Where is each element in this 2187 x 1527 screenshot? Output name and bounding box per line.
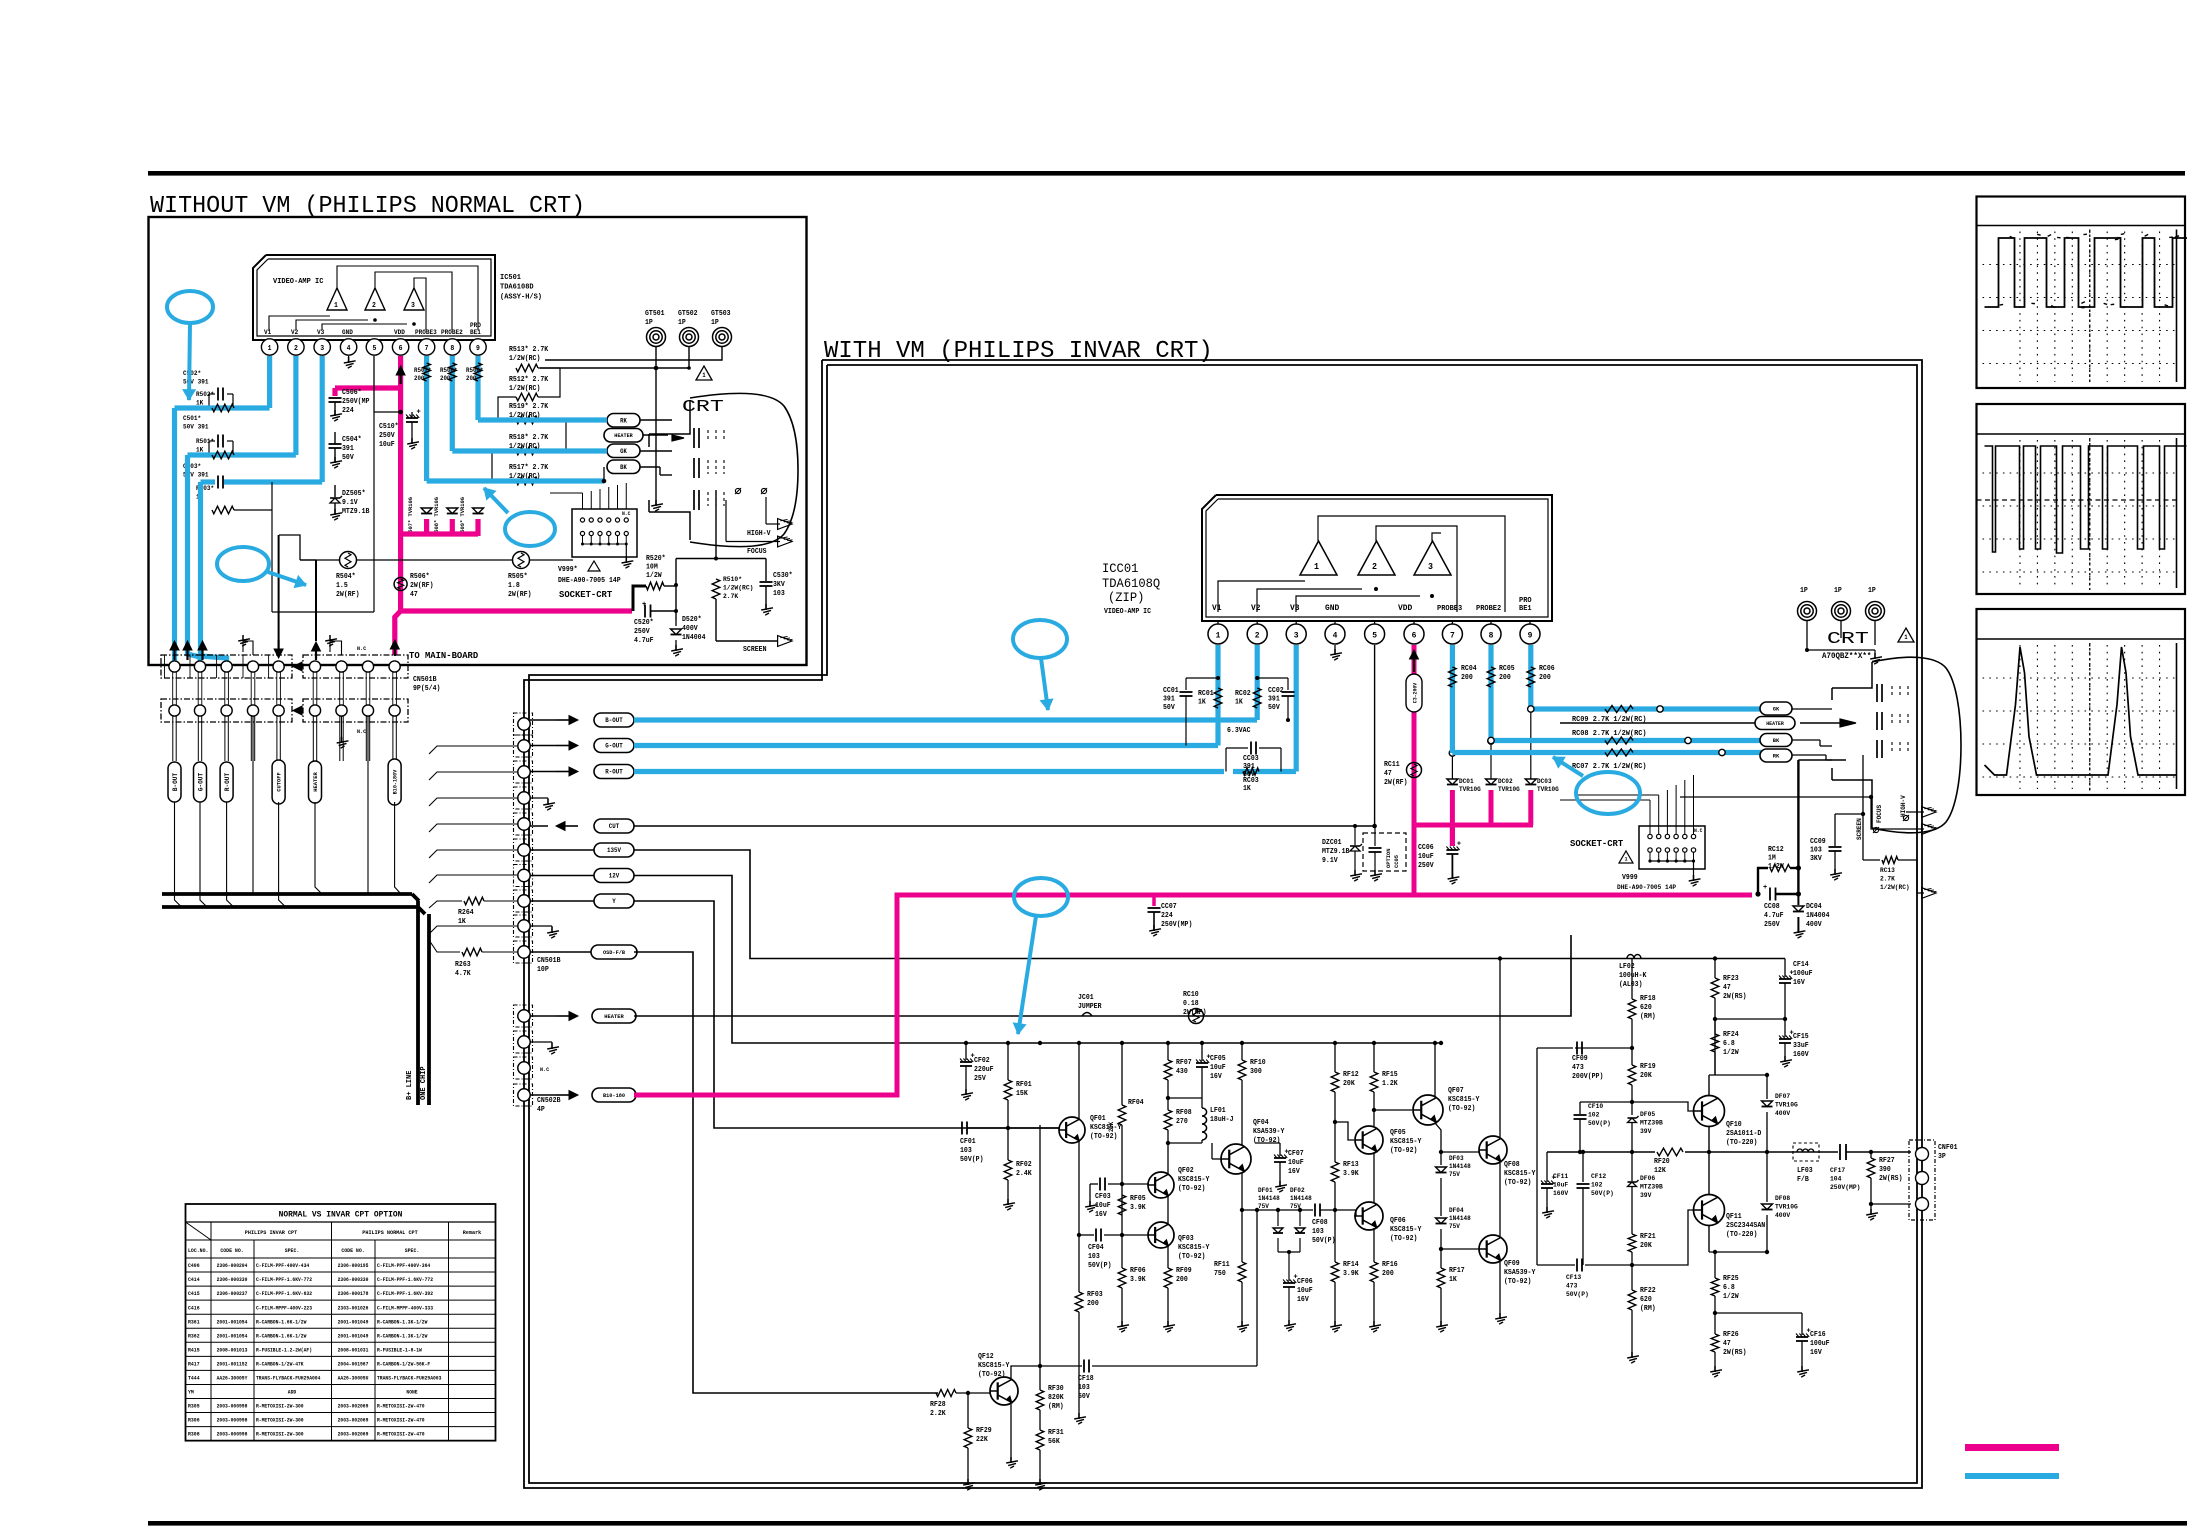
wire cyan ICC01 pin2 down [1255,645,1260,720]
svg-text:10P: 10P [537,966,549,974]
svg-text:4.7K: 4.7K [455,970,471,978]
svg-text:F/B: F/B [1797,1176,1810,1184]
svg-text:MTZ9.1B: MTZ9.1B [1322,848,1350,856]
wire CRT focus lines [725,500,727,542]
svg-text:FOCUS: FOCUS [1876,805,1883,823]
svg-text:N.C: N.C [540,1066,550,1073]
ground for CF02 [965,1089,967,1095]
svg-text:1P: 1P [711,319,719,327]
capacitor CF15 [1784,1019,1786,1037]
svg-text:CC02: CC02 [1268,687,1284,695]
svg-text:GK: GK [620,448,627,455]
svg-text:22K: 22K [976,1436,989,1444]
svg-text:C506*: C506* [342,389,362,397]
capacitor CF06 [1283,1282,1295,1284]
pill RK (with) [1760,749,1792,762]
wire cyan IC501 pin8 to GK [450,356,455,451]
resistor RC05 [1488,645,1493,741]
svg-text:R512* 2.7K: R512* 2.7K [509,376,549,384]
wires socket risers (without) [582,493,584,509]
svg-text:G-OUT: G-OUT [197,773,204,791]
svg-text:2.4K: 2.4K [1016,1170,1032,1178]
oscillogram box 3 [1977,609,2186,795]
CRT funnel (without) [690,393,798,546]
transistor QF05 [1355,1126,1383,1154]
svg-text:3.9K: 3.9K [1130,1204,1146,1212]
table header rows [211,1222,496,1240]
SCREEN arrow (without) [778,636,792,647]
arrow up on B10-180 (without) [394,648,396,656]
SOCKET-CRT connector (with) [1639,826,1705,869]
svg-text:AA26-30005U: AA26-30005U [338,1376,369,1382]
wire QF09 emitter [1499,1262,1501,1318]
wire QF01 collector [1078,1043,1080,1119]
arrow + pill B10-180 [530,1094,556,1096]
svg-text:750: 750 [1214,1270,1226,1278]
svg-text:RF30: RF30 [1048,1385,1064,1393]
wire cyan row V2 [188,452,296,457]
svg-text:R518* 2.7K: R518* 2.7K [509,434,549,442]
svg-text:2003-002069: 2003-002069 [338,1404,369,1410]
transistor QF02 [1148,1172,1174,1198]
pill GK (with) [1760,702,1792,715]
svg-text:HEATER: HEATER [1766,721,1784,727]
svg-text:8: 8 [450,345,454,353]
svg-text:1/2W(RC): 1/2W(RC) [1880,884,1910,891]
svg-text:R520*: R520* [646,555,666,563]
ground for CC07 [1153,925,1155,931]
wire 135V line [634,850,1785,959]
op-amp triangle 3 of IC501 [404,288,424,310]
svg-text:HIGH-V: HIGH-V [747,530,771,538]
svg-text:103: 103 [960,1147,972,1155]
svg-text:1K: 1K [1235,699,1244,707]
svg-text:KSC815-Y: KSC815-Y [1390,1226,1422,1234]
transistor QF03 [1148,1222,1174,1248]
svg-text:50V: 50V [1163,704,1176,712]
svg-text:PROBE3: PROBE3 [415,329,437,336]
wire cyan IC501 pin9 to RK [475,356,480,420]
svg-text:430: 430 [1176,1068,1188,1076]
svg-text:QF08: QF08 [1504,1161,1520,1169]
svg-text:10uF: 10uF [1095,1202,1111,1210]
svg-text:20K: 20K [1343,1080,1356,1088]
svg-text:C-FILM-PPF-1.6KV-392: C-FILM-PPF-1.6KV-392 [377,1291,433,1297]
svg-text:2306-000237: 2306-000237 [217,1291,248,1297]
svg-text:D509* TVR10G: D509* TVR10G [459,497,466,536]
svg-text:3: 3 [411,302,415,310]
fusible resistor R504 [340,552,357,569]
svg-text:CF12: CF12 [1591,1173,1606,1181]
wire magenta diode bus (without) [401,531,478,536]
svg-text:C504*: C504* [342,436,362,444]
svg-text:OSD-F/B: OSD-F/B [603,949,626,956]
svg-text:RF16: RF16 [1382,1261,1398,1269]
table column lines [210,1222,212,1441]
wire heater line (crt) [1560,722,1755,724]
wire cyan B-OUT long [634,717,1257,722]
svg-text:103: 103 [1088,1253,1100,1261]
svg-text:224: 224 [1161,912,1173,920]
svg-text:BE1: BE1 [1519,605,1532,613]
svg-text:CC08: CC08 [1764,903,1780,911]
svg-text:SPEC.: SPEC. [405,1248,420,1254]
wires connector row2 to pills [172,716,174,761]
callout ellipse C (without, diodes) [505,512,555,546]
svg-text:CC06: CC06 [1418,844,1434,852]
ground for DZC01 [1354,870,1356,876]
svg-text:47: 47 [1384,770,1392,778]
wire QF10 collector [1708,1075,1710,1095]
resistor RF03 [1075,1292,1083,1312]
resistor RF25 [1714,1252,1716,1278]
svg-text:V1: V1 [1212,603,1222,613]
wire cyan IC501 pin2 down [293,356,298,455]
svg-text:RF01: RF01 [1016,1081,1032,1089]
wire 12V line [634,876,1441,1044]
wire GT501 down [655,346,657,505]
svg-text:1.2K: 1.2K [1382,1080,1398,1088]
wire DF row [1242,1209,1313,1211]
svg-text:R-FUSIBLE-1.2-2W(AF): R-FUSIBLE-1.2-2W(AF) [256,1347,312,1353]
svg-text:C530*: C530* [773,572,793,580]
svg-text:(TO-92): (TO-92) [1090,1133,1117,1141]
svg-text:4P: 4P [537,1106,545,1114]
svg-text:9.1V: 9.1V [342,499,358,507]
svg-text:1: 1 [702,372,706,379]
diode DF04 [1436,1218,1447,1224]
capacitor CF16 [1715,1312,1802,1314]
svg-text:3: 3 [1428,562,1433,572]
ground stubs above row1 [243,641,253,655]
resistor R264 [429,901,462,908]
svg-text:RF03: RF03 [1087,1291,1103,1299]
svg-text:CN501B: CN501B [537,957,561,965]
wire QF11 base link [1632,1210,1694,1265]
connector CN501A row 2 [161,699,292,722]
wires pills to CRT neck [640,419,672,421]
svg-text:CC01: CC01 [1163,687,1179,695]
svg-text:(TO-92): (TO-92) [978,1371,1005,1379]
svg-text:20K: 20K [1640,1072,1653,1080]
ground for CC09 [1834,869,1836,875]
svg-text:1/2W: 1/2W [1723,1049,1739,1057]
svg-text:TDA6108D: TDA6108D [500,284,534,292]
svg-text:RC07 2.7K 1/2W(RC): RC07 2.7K 1/2W(RC) [1572,763,1647,771]
capacitor CC08 [1769,888,1771,901]
svg-text:1: 1 [1904,634,1908,641]
svg-text:PRO: PRO [1519,597,1532,605]
svg-text:16V: 16V [1793,979,1806,987]
wire heavy crt feed column [1797,760,1799,894]
resistor RF01 [1007,1043,1009,1080]
svg-text:9.1V: 9.1V [1322,857,1338,865]
ground for CN501B pin4 [530,797,548,799]
resistor RF19 [1628,1065,1636,1085]
svg-text:QF02: QF02 [1178,1167,1194,1175]
svg-text:6: 6 [399,345,403,353]
svg-text:C3-200V: C3-200V [1413,682,1419,703]
svg-text:ONE CHIP: ONE CHIP [420,1066,428,1100]
svg-text:200: 200 [440,375,451,382]
svg-text:102: 102 [1588,1112,1599,1120]
WITHOUT VM section box [149,217,807,665]
svg-text:RC01: RC01 [1198,690,1214,698]
svg-text:1N4148: 1N4148 [1258,1195,1280,1202]
diode DF07 [1766,1075,1768,1099]
vertical pill B10-180V [388,759,401,805]
svg-text:GT502: GT502 [678,310,698,318]
wire cyan ICC01 pin3 down [1294,645,1299,772]
ground for RF06 [1121,1321,1123,1327]
wire stubs bus to CN501B pins [429,746,517,754]
capacitor CF01 [961,1122,963,1135]
svg-text:C502*: C502* [183,370,201,377]
wires pills down to B+ bus [175,802,182,907]
wire ICC01 pin5 down [1374,645,1376,826]
capacitor CF14 [1784,959,1786,978]
resistor RF16 [1373,1228,1375,1262]
svg-text:R510*: R510* [723,576,742,584]
svg-text:MTZ39B: MTZ39B [1640,1120,1663,1128]
svg-text:RF22: RF22 [1640,1287,1656,1295]
wire cyan IC501 pin1 down [267,356,272,408]
svg-text:2: 2 [294,345,298,353]
svg-text:IC501: IC501 [500,274,521,282]
svg-text:C-FILM-MPPF-400V-333: C-FILM-MPPF-400V-333 [377,1305,433,1311]
svg-text:1P: 1P [1868,587,1876,595]
svg-text:SCREEN: SCREEN [743,646,767,654]
wire HEATER feed with up arrow [315,560,317,641]
svg-text:1: 1 [1216,631,1221,641]
svg-text:CODE NO.: CODE NO. [220,1248,243,1254]
svg-text:391: 391 [1268,696,1280,704]
svg-text:7: 7 [1450,631,1455,641]
wire QF10 emitter to rail [1708,1127,1710,1152]
svg-text:2001-001054: 2001-001054 [217,1319,248,1325]
diode DF03 [1436,1167,1447,1173]
svg-text:R-CARBON-1.3K-1/2W: R-CARBON-1.3K-1/2W [377,1319,427,1325]
svg-text:+: + [1457,841,1461,849]
pill 12V [530,875,594,877]
capacitor CF09 [1575,1047,1632,1049]
svg-text:JC01: JC01 [1078,994,1094,1002]
wire focus line [1680,796,1871,798]
table data rows [186,1271,496,1273]
svg-text:V2: V2 [1251,603,1261,613]
svg-text:2003-002069: 2003-002069 [338,1432,369,1438]
resistor RF31 [1039,1410,1041,1430]
svg-text:102: 102 [1591,1182,1602,1190]
wire cyan BK line [1491,738,1762,743]
svg-text:D508* TVR10G: D508* TVR10G [433,497,440,536]
resistor R263 [429,940,460,952]
svg-text:1P: 1P [1834,587,1842,595]
callout ellipse B (without, mid-left) [217,547,269,581]
ground for RF02 [1007,1199,1009,1205]
svg-text:R-CARBON-1.3K-1/2W: R-CARBON-1.3K-1/2W [377,1333,427,1339]
svg-text:N.C: N.C [1694,828,1702,834]
svg-text:CUT: CUT [609,823,620,830]
wire QF05-QF06 column [1373,1152,1375,1202]
ground for RF26 [1714,1366,1716,1372]
svg-text:200: 200 [1176,1276,1188,1284]
pill Y [530,900,594,902]
svg-text:(ZIP): (ZIP) [1108,590,1144,605]
pill OSD-F/B [530,951,594,953]
svg-text:CF07: CF07 [1288,1150,1304,1158]
svg-text:R-CARBON-1/2W-47K: R-CARBON-1/2W-47K [256,1361,304,1367]
op-amp triangle 2 of ICC01 [1358,541,1395,575]
vertical pill G-OUT [194,762,207,802]
svg-text:200: 200 [1499,674,1511,682]
svg-text:(TO-92): (TO-92) [1504,1278,1531,1286]
wire bias row [300,559,340,561]
svg-text:7: 7 [425,345,429,353]
svg-text:1N4148: 1N4148 [1449,1215,1471,1222]
resistor RF12 [1334,1043,1336,1072]
B+ bus thick lines [162,892,412,896]
svg-text:TDA6108Q: TDA6108Q [1102,576,1160,591]
WITH VM section box outer border [524,360,1922,1488]
resistor RF11 [1238,1262,1246,1282]
svg-text:1/2W(RC): 1/2W(RC) [509,355,540,363]
svg-text:TVR10G: TVR10G [1537,786,1559,793]
wire QF11 collector [1708,1226,1710,1252]
vertical pill HEATER [309,761,322,803]
svg-text:DHE-A90-7005 14P: DHE-A90-7005 14P [1617,884,1676,891]
svg-text:R-OUT: R-OUT [224,773,231,791]
pill RK (without) [607,414,640,428]
svg-text:12V: 12V [609,873,620,880]
capacitor CF07 [1279,1143,1281,1156]
svg-text:250V: 250V [1418,862,1434,870]
ground for CC05 [1374,870,1376,876]
arrow up x3 on video lines [173,649,175,660]
waveform 3 trace [1985,647,2177,775]
resistor RF22 [1628,1290,1636,1310]
svg-text:RF27: RF27 [1879,1157,1895,1165]
svg-text:C520*: C520* [634,619,654,627]
svg-text:(TO-92): (TO-92) [1178,1185,1205,1193]
svg-text:VIDEO-AMP IC: VIDEO-AMP IC [273,278,324,286]
svg-text:RF08: RF08 [1176,1109,1192,1117]
svg-text:C-FILM-MPPF-400V-223: C-FILM-MPPF-400V-223 [256,1305,312,1311]
ground for ICC01 pin4 [1334,645,1336,654]
ground for CC06 [1451,873,1453,879]
ground for RF14 [1334,1321,1336,1327]
svg-text:OPTION: OPTION [1385,848,1392,868]
svg-text:104: 104 [1830,1176,1841,1184]
svg-text:(TO-92): (TO-92) [1390,1147,1417,1155]
wire CUTOFF feed with down arrow [278,535,280,640]
resistor RF09 [1164,1268,1172,1288]
wire QF09 base [1441,1248,1479,1250]
capacitor CF10 [1579,1102,1581,1114]
vertical pill B-OUT [168,762,181,802]
svg-text:RF11: RF11 [1214,1261,1230,1269]
svg-text:RF19: RF19 [1640,1063,1656,1071]
svg-text:250V: 250V [1764,921,1780,929]
svg-text:3KV: 3KV [1810,855,1823,863]
ground for RF03 [1078,1413,1080,1419]
svg-text:2001-001054: 2001-001054 [217,1333,248,1339]
svg-text:1N4148: 1N4148 [1290,1195,1312,1202]
svg-text:RC06: RC06 [1539,665,1555,673]
ground for RF17 [1440,1321,1442,1327]
svg-text:HEATER: HEATER [604,1013,624,1020]
svg-text:2.7K: 2.7K [1880,876,1895,883]
wire magenta probe diode bus [1414,823,1533,828]
svg-text:R417: R417 [188,1361,200,1367]
svg-text:CN502B: CN502B [537,1097,561,1105]
pill BK (without) [607,460,640,474]
svg-text:Remark: Remark [463,1229,482,1236]
wire magenta VDD ICC01 pin6 [1412,645,1417,895]
svg-text:8: 8 [1489,631,1494,641]
arrow + pill CUT [530,825,548,827]
svg-text:50V(P): 50V(P) [1566,1291,1589,1299]
svg-text:CC09: CC09 [1810,838,1826,846]
svg-text:NORMAL VS INVAR CPT OPTION: NORMAL VS INVAR CPT OPTION [279,1210,403,1220]
svg-text:R305: R305 [188,1404,200,1410]
svg-text:200V(PP): 200V(PP) [1572,1073,1603,1081]
svg-text:RF25: RF25 [1723,1275,1739,1283]
CRT funnel (with) [1872,657,1961,833]
svg-text:QF11: QF11 [1726,1213,1742,1221]
CRT heater arrow (with) [1840,719,1856,727]
resistor RC04 [1450,645,1455,665]
svg-text:10uF: 10uF [1297,1287,1313,1295]
svg-text:47: 47 [410,591,418,599]
svg-text:PROBE2: PROBE2 [441,329,463,336]
HIGH-V arrow (with) [1906,811,1924,813]
ground for RF29 [967,1479,969,1485]
svg-text:2303-001026: 2303-001026 [338,1305,369,1311]
svg-text:2W(RF): 2W(RF) [410,582,434,590]
svg-text:PROBE2: PROBE2 [1476,605,1502,613]
svg-text:RF14: RF14 [1343,1261,1359,1269]
svg-text:R519* 2.7K: R519* 2.7K [509,403,549,411]
svg-text:CF08: CF08 [1312,1219,1328,1227]
svg-text:CF05: CF05 [1210,1055,1226,1063]
svg-text:RF28: RF28 [930,1401,946,1409]
svg-text:RF13: RF13 [1343,1161,1359,1169]
svg-text:TO MAIN-BOARD: TO MAIN-BOARD [409,650,478,661]
ground for RF09 [1167,1321,1169,1327]
svg-text:6: 6 [1412,631,1417,641]
svg-text:R361: R361 [188,1319,200,1325]
svg-text:(RM): (RM) [1640,1013,1656,1021]
svg-text:V3: V3 [317,329,324,336]
svg-text:RC05: RC05 [1499,665,1515,673]
svg-text:QF06: QF06 [1390,1217,1406,1225]
svg-text:KSC815-Y: KSC815-Y [1090,1124,1122,1132]
svg-text:AA26-30005Y: AA26-30005Y [217,1376,248,1382]
svg-text:2: 2 [1372,562,1377,572]
wire cyan G-OUT long [634,743,1218,748]
svg-text:18uH-J: 18uH-J [1210,1116,1234,1124]
legend video-line swatch (cyan) [1965,1473,2059,1479]
svg-text:C406: C406 [188,1263,200,1269]
svg-text:2: 2 [1255,631,1260,641]
svg-text:KSC815-Y: KSC815-Y [1390,1138,1422,1146]
CRT heater arrow (without) [672,435,684,441]
svg-text:RF18: RF18 [1640,995,1656,1003]
ground for RF16 [1373,1321,1375,1327]
svg-text:R-CARBON-1.6K-1/2W: R-CARBON-1.6K-1/2W [256,1319,306,1325]
svg-text:C415: C415 [188,1291,200,1297]
